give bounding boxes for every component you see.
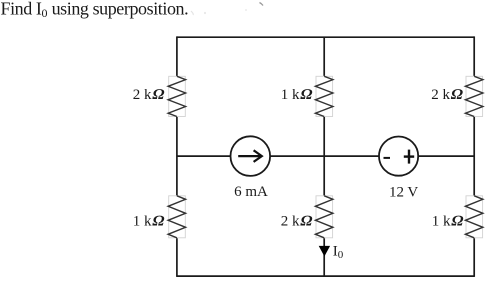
wire middle rail mid segment bbox=[323, 117, 325, 196]
wire left rail bottom segment bbox=[176, 238, 178, 277]
resistor R2 box (top-middle) bbox=[316, 76, 333, 116]
resistor R6 box (bottom-right) bbox=[466, 196, 483, 238]
resistor R4 zigzag 1k bottom-left bbox=[168, 196, 186, 238]
stray mark bbox=[260, 3, 264, 6]
resistor R5 zigzag 2k bottom-middle bbox=[315, 196, 333, 238]
svg-text:1 k: 1 k bbox=[133, 213, 152, 229]
wire middle row left segment bbox=[177, 155, 231, 157]
resistor R4 box (bottom-left) bbox=[169, 196, 186, 238]
voltage source V1 circle bbox=[379, 137, 418, 176]
resistor R1 zigzag 2k top-left bbox=[168, 76, 186, 116]
svg-text:Ω: Ω bbox=[299, 212, 315, 229]
svg-text:2 k: 2 k bbox=[431, 87, 450, 103]
svg-text:Find I0 using superposition.: Find I0 using superposition. bbox=[1, 0, 189, 20]
svg-text:Ω: Ω bbox=[450, 212, 466, 229]
resistor R3 box (top-right) bbox=[466, 76, 483, 116]
resistor R3 zigzag 2k top-right bbox=[465, 76, 483, 116]
resistor R1 box (top-left) bbox=[169, 76, 186, 116]
resistor R2 zigzag 1k top-middle bbox=[315, 76, 333, 116]
voltage source V1 plus sign bbox=[404, 150, 414, 164]
current I0 arrow head bbox=[319, 246, 330, 257]
svg-text:6 mA: 6 mA bbox=[234, 184, 268, 200]
current source I1 arrow bbox=[238, 150, 262, 162]
svg-text:12 V: 12 V bbox=[389, 185, 418, 201]
svg-text:I0: I0 bbox=[333, 244, 344, 262]
svg-text:Ω: Ω bbox=[151, 86, 167, 103]
wire left rail mid segment bbox=[176, 117, 178, 196]
svg-text:2 k: 2 k bbox=[281, 213, 300, 229]
voltage source V1 minus sign bbox=[384, 157, 391, 159]
wire right rail top segment bbox=[473, 36, 475, 76]
svg-text:Ω: Ω bbox=[299, 86, 315, 103]
svg-text:1 k: 1 k bbox=[432, 213, 451, 229]
faint smudges bbox=[191, 11, 193, 15]
wire middle row center segment bbox=[270, 155, 379, 157]
current source I1 circle bbox=[231, 136, 271, 176]
wire right rail mid segment bbox=[473, 117, 475, 196]
wire left rail top segment bbox=[176, 36, 178, 76]
svg-text:1 k: 1 k bbox=[281, 87, 300, 103]
wire top rail bbox=[177, 36, 474, 38]
svg-text:2 k: 2 k bbox=[133, 87, 152, 103]
resistor R6 zigzag 1k bottom-right bbox=[465, 196, 483, 238]
svg-text:Ω: Ω bbox=[449, 86, 465, 103]
resistor R5 box (bottom-middle) bbox=[316, 196, 333, 238]
wire middle row right segment bbox=[418, 155, 474, 157]
wire middle rail top segment bbox=[323, 37, 325, 76]
svg-text:Ω: Ω bbox=[151, 212, 167, 229]
wire bottom rail bbox=[177, 275, 474, 277]
wire right rail bottom segment bbox=[473, 238, 475, 277]
wire middle rail arrow segment bbox=[323, 238, 325, 277]
